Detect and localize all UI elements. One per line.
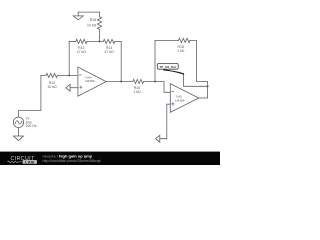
wire V1 to ground: [18, 128, 20, 137]
wire R12 left corner: [41, 74, 46, 76]
label R12 10 kOhm: [47, 81, 57, 89]
label OA4 LM358: [85, 75, 95, 83]
resistor R16: [133, 79, 144, 83]
svg-text:LAB: LAB: [25, 160, 35, 164]
wire V1 to R12: [19, 75, 41, 117]
ground GND2 (below V1): [14, 136, 24, 141]
svg-text:100 Hz: 100 Hz: [26, 124, 37, 128]
label OA5 LM358: [175, 94, 185, 102]
svg-text:47 kΩ: 47 kΩ: [104, 50, 114, 54]
svg-text:R15: R15: [90, 18, 96, 22]
node junction R12/R13/opamp: [68, 74, 70, 76]
svg-text:1 kΩ: 1 kΩ: [177, 49, 185, 53]
svg-text:LM358: LM358: [85, 79, 95, 83]
wire testpoint tap: [184, 73, 208, 86]
node junction output/testpoint: [207, 85, 209, 87]
wire row R13/R14: [69, 40, 76, 42]
wire R16 to OA5 inverting input: [144, 82, 171, 93]
wire R12 to OA4 inverting input: [57, 74, 78, 76]
svg-text:deejota / high gain op amp: deejota / high gain op amp: [43, 153, 93, 158]
svg-text:1 kΩ: 1 kΩ: [133, 90, 141, 94]
wire R18 left vertical: [155, 40, 179, 81]
svg-text:TP_SS_Out: TP_SS_Out: [159, 65, 176, 69]
watermark bar: [0, 152, 220, 165]
resistor R14: [103, 39, 115, 43]
wire feedback from R14 down: [120, 41, 122, 81]
label R15 10 kOhm: [87, 18, 97, 28]
svg-text:10 kΩ: 10 kΩ: [47, 85, 57, 89]
label R14 47 kOhm: [104, 46, 114, 54]
wire top flag to R15: [78, 11, 99, 13]
node junction R15/R13/R14: [98, 40, 100, 42]
label R16 1 kOhm: [133, 86, 141, 94]
node junction R18 tap: [154, 80, 156, 82]
op-amp OA4: [78, 67, 106, 96]
op-amp OA5: [170, 84, 198, 113]
wire OA5 output: [199, 97, 208, 99]
ground GND3 (OA4 + input, left arrow): [66, 84, 78, 91]
flag TP_SS_Out: [157, 63, 184, 75]
label R18 1 kOhm: [177, 45, 185, 53]
resistor R12: [46, 73, 57, 77]
wire OA5 + input to ground: [160, 104, 171, 139]
resistor R13: [76, 39, 87, 43]
wire R13 to R14: [87, 40, 103, 42]
wire R14 to right corner: [115, 40, 121, 42]
resistor R18: [179, 38, 191, 42]
label R13 47 kOhm: [77, 46, 87, 54]
svg-text:http://circuitlab.com/c/25csrm: http://circuitlab.com/c/25csrm38bzqk: [43, 159, 101, 163]
resistor R15: [97, 12, 101, 41]
svg-text:10 kΩ: 10 kΩ: [87, 24, 97, 28]
ground GND1 (top, down arrow): [73, 12, 83, 20]
node junction OA4 out: [120, 80, 122, 82]
wire OA4 output row: [106, 81, 133, 83]
svg-text:47 kΩ: 47 kΩ: [77, 50, 87, 54]
source V1 sine: [13, 117, 23, 127]
label V1 sine 100 Hz: [26, 117, 37, 129]
svg-text:LM358: LM358: [175, 99, 185, 103]
ground GND4 (OA5 + input, left arrow): [156, 135, 160, 142]
wire R18 right down to output: [190, 40, 208, 97]
wire feedback left vertical: [68, 41, 70, 75]
